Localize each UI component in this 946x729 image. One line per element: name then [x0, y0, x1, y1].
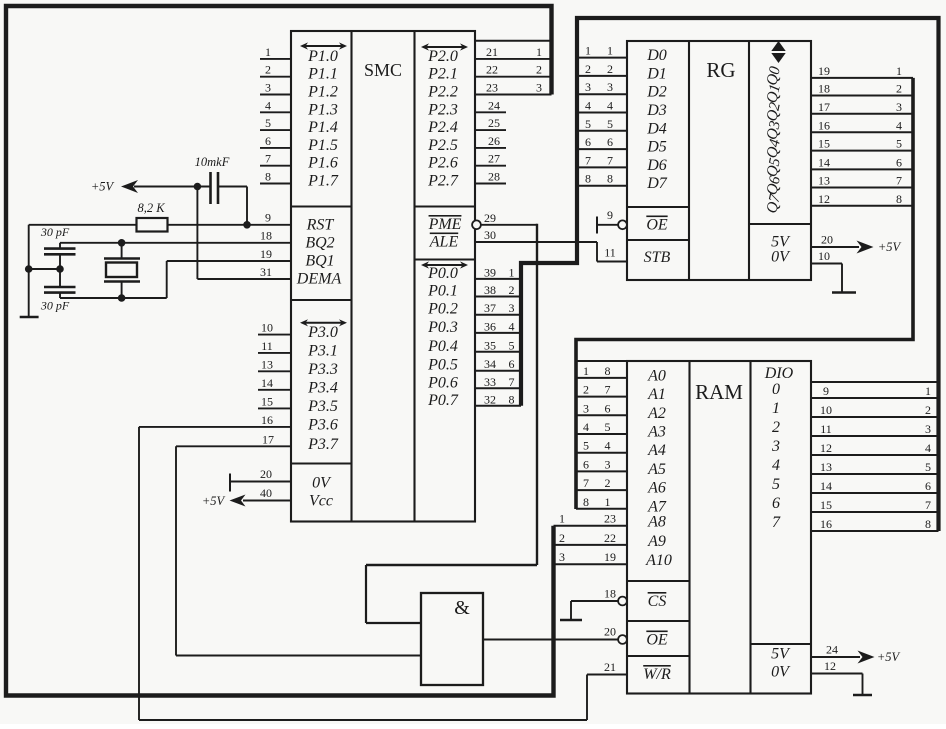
svg-text:D2: D2: [646, 84, 667, 101]
svg-text:23: 23: [604, 512, 616, 526]
RAM 0V label: [771, 664, 791, 681]
svg-text:A5: A5: [647, 461, 666, 478]
SMC ALE label (overline): [429, 234, 459, 251]
svg-text:7: 7: [605, 383, 611, 397]
svg-text:D4: D4: [646, 120, 667, 137]
svg-text:16: 16: [261, 413, 273, 427]
SMC pin 18 number: [260, 229, 272, 243]
svg-text:CS: CS: [648, 593, 667, 610]
svg-text:A2: A2: [647, 405, 666, 422]
svg-text:DIO: DIO: [764, 365, 794, 382]
SMC pin 20 wire with end bar: [230, 467, 291, 492]
svg-text:18: 18: [260, 229, 272, 243]
svg-text:6: 6: [605, 401, 611, 415]
ground bar RAM: [853, 694, 872, 696]
svg-text:16: 16: [818, 118, 830, 132]
svg-text:12: 12: [824, 659, 836, 673]
svg-text:D7: D7: [646, 175, 668, 192]
svg-text:32: 32: [484, 392, 496, 406]
svg-text:3: 3: [536, 81, 542, 95]
svg-text:35: 35: [484, 338, 496, 352]
svg-text:P1.7: P1.7: [307, 173, 339, 190]
svg-text:3: 3: [585, 80, 591, 94]
svg-text:15: 15: [261, 394, 273, 408]
SMC P1.0-P1.7 labels: [307, 48, 339, 190]
RG 5V label: [771, 234, 791, 251]
svg-text:10mkF: 10mkF: [195, 155, 230, 169]
svg-text:P1.4: P1.4: [307, 119, 338, 136]
svg-text:3: 3: [771, 438, 780, 455]
svg-text:5: 5: [265, 116, 271, 130]
svg-text:3: 3: [265, 81, 271, 95]
svg-text:P0.5: P0.5: [427, 357, 458, 374]
svg-text:4: 4: [607, 99, 613, 113]
RG pin 9 OE wire with end bar and bubble: [597, 208, 627, 234]
svg-text:4: 4: [585, 99, 591, 113]
svg-text:8: 8: [509, 392, 515, 406]
RAM 5V label: [771, 646, 791, 663]
RAM pin 24 wire to +5V arrow: [811, 643, 901, 665]
svg-text:P0.3: P0.3: [427, 319, 458, 336]
svg-text:8: 8: [896, 192, 902, 206]
svg-text:7: 7: [772, 514, 781, 531]
svg-text:17: 17: [818, 100, 830, 114]
svg-text:STB: STB: [644, 249, 671, 266]
svg-text:3: 3: [896, 100, 902, 114]
svg-text:RG: RG: [706, 58, 735, 82]
svg-text:P0.6: P0.6: [427, 374, 458, 391]
svg-text:7: 7: [265, 152, 271, 166]
SMC RST label: [306, 217, 335, 234]
svg-text:6: 6: [583, 457, 589, 471]
svg-text:A4: A4: [647, 442, 666, 459]
svg-text:P3.3: P3.3: [307, 361, 338, 378]
wire PME pin29 to AND gate input 1: [366, 224, 537, 623]
svg-text:D6: D6: [646, 157, 667, 174]
RG STB label: [644, 249, 671, 266]
svg-text:P1.0: P1.0: [307, 48, 338, 65]
svg-text:P3.6: P3.6: [307, 416, 338, 433]
RAM address wires A8-A10 from left frame: [554, 512, 628, 565]
svg-text:BQ2: BQ2: [305, 235, 334, 252]
RAM WR label (overline): [643, 666, 671, 683]
svg-text:7: 7: [583, 476, 589, 490]
svg-text:OE: OE: [646, 217, 668, 234]
svg-text:P3.4: P3.4: [307, 379, 338, 396]
SMC pin 31 number: [260, 265, 272, 279]
svg-text:19: 19: [260, 247, 272, 261]
RAM pin 20 OE bubble: [604, 625, 627, 644]
bus frame left (P2.0-P2.2 to A8-A10 loop): [6, 6, 554, 696]
svg-text:13: 13: [820, 460, 832, 474]
svg-text:18: 18: [604, 587, 616, 601]
SMC pin 19 number: [260, 247, 272, 261]
svg-text:34: 34: [484, 357, 496, 371]
svg-text:6: 6: [772, 495, 780, 512]
svg-text:12: 12: [820, 441, 832, 455]
svg-text:5: 5: [585, 117, 591, 131]
svg-text:1: 1: [772, 400, 780, 417]
RAM CS label (overline): [648, 593, 667, 610]
capacitor C3 10mkF: [195, 155, 230, 204]
svg-text:19: 19: [604, 550, 616, 564]
svg-text:1: 1: [583, 364, 589, 378]
wire P3.6 to RAM WR (bottom route): [139, 427, 587, 720]
svg-text:D3: D3: [646, 102, 667, 119]
SMC pin 9 number: [265, 211, 271, 225]
RG OE label (overline): [646, 217, 668, 234]
svg-text:1: 1: [536, 45, 542, 59]
svg-text:7: 7: [585, 153, 591, 167]
svg-text:20: 20: [604, 625, 616, 639]
svg-text:11: 11: [261, 339, 273, 353]
svg-text:30: 30: [484, 228, 496, 242]
RAM DIO 0-7 digit labels: [771, 381, 781, 531]
crystal Q1: [104, 243, 140, 302]
wire P3.7 to AND gate input 2: [176, 446, 421, 655]
SMC P3 labels: [307, 324, 339, 453]
svg-text:7: 7: [896, 174, 902, 188]
svg-text:1: 1: [559, 512, 565, 526]
SMC pin 29 PME bubble: [472, 211, 496, 229]
SMC port P0 bus arrow: [421, 261, 468, 268]
svg-text:7: 7: [607, 153, 613, 167]
svg-text:19: 19: [818, 64, 830, 78]
svg-text:P2.5: P2.5: [427, 137, 458, 154]
RG 0V label: [771, 249, 791, 266]
ground bar CS: [560, 619, 582, 621]
svg-text:4: 4: [583, 420, 589, 434]
RG input wires D0-D7 from bus: [579, 44, 627, 186]
RAM data wires DIO to bus: [811, 384, 939, 531]
svg-text:P1.6: P1.6: [307, 155, 338, 172]
RG pin 10 wire to ground: [811, 249, 842, 292]
svg-text:25: 25: [488, 116, 500, 130]
svg-text:10: 10: [261, 321, 273, 335]
svg-text:11: 11: [820, 422, 832, 436]
svg-text:4: 4: [509, 319, 515, 333]
svg-text:BQ1: BQ1: [305, 253, 334, 270]
svg-text:+5V: +5V: [202, 494, 226, 508]
svg-text:2: 2: [772, 419, 780, 436]
svg-text:5: 5: [605, 420, 611, 434]
svg-text:2: 2: [585, 62, 591, 76]
RAM pin 21 WR wire: [587, 660, 627, 675]
svg-text:3: 3: [607, 80, 613, 94]
svg-text:3: 3: [559, 550, 565, 564]
svg-text:9: 9: [823, 384, 829, 398]
svg-text:0V: 0V: [312, 475, 332, 492]
+5V label at pin 40: [202, 494, 226, 508]
svg-text:P0.4: P0.4: [427, 338, 458, 355]
svg-text:P2.1: P2.1: [427, 66, 458, 83]
RAM U3 body: [627, 361, 811, 694]
SMC pins 21-23 bused wires to left frame: [475, 45, 552, 95]
svg-text:22: 22: [486, 63, 498, 77]
svg-text:SMC: SMC: [364, 60, 402, 80]
svg-text:8: 8: [605, 364, 611, 378]
resistor R1 8,2K on RST wire: [29, 201, 291, 232]
svg-text:2: 2: [559, 531, 565, 545]
svg-text:5: 5: [607, 117, 613, 131]
SMC P0.0-P0.7 labels: [427, 265, 459, 409]
svg-text:A3: A3: [647, 424, 666, 441]
svg-text:16: 16: [820, 517, 832, 531]
RAM DIO label: [764, 365, 794, 382]
svg-text:A1: A1: [647, 386, 666, 403]
svg-text:36: 36: [484, 319, 496, 333]
svg-text:5: 5: [896, 137, 902, 151]
svg-text:ALE: ALE: [429, 234, 459, 251]
svg-text:7: 7: [509, 375, 515, 389]
svg-text:2: 2: [925, 403, 931, 417]
svg-text:1: 1: [925, 384, 931, 398]
svg-text:3: 3: [925, 422, 931, 436]
svg-text:6: 6: [265, 134, 271, 148]
svg-text:6: 6: [585, 135, 591, 149]
svg-text:10: 10: [820, 403, 832, 417]
svg-text:+5V: +5V: [878, 240, 902, 254]
svg-text:7: 7: [925, 498, 931, 512]
SMC pin 17 wire (P3.7): [176, 432, 291, 446]
SMC pins 1-8 wires (P1): [260, 45, 291, 184]
SMC BQ2 label: [305, 235, 334, 252]
microcontroller U1 SMC body: [291, 31, 475, 522]
SMC DEMA label: [296, 271, 342, 288]
svg-text:12: 12: [818, 192, 830, 206]
svg-text:33: 33: [484, 375, 496, 389]
svg-text:4: 4: [896, 118, 902, 132]
svg-text:9: 9: [265, 211, 271, 225]
svg-text:30 pF: 30 pF: [40, 299, 70, 313]
svg-text:31: 31: [260, 265, 272, 279]
SMC BQ1 label: [305, 253, 334, 270]
svg-text:P2.0: P2.0: [427, 48, 458, 65]
svg-text:P2.3: P2.3: [427, 101, 458, 118]
svg-text:&: &: [454, 597, 470, 619]
svg-text:24: 24: [826, 643, 838, 657]
ground bar under RST leg: [20, 316, 39, 318]
SMC P2.0-P2.7 labels: [427, 48, 459, 190]
svg-text:2: 2: [583, 383, 589, 397]
RG Q diamond arrow: [771, 41, 785, 63]
svg-text:4: 4: [925, 441, 931, 455]
svg-text:24: 24: [488, 98, 500, 112]
svg-text:2: 2: [536, 63, 542, 77]
wire AND gate output to RAM OE: [483, 639, 619, 641]
svg-text:P1.1: P1.1: [307, 66, 338, 83]
SMC pin 30 ALE wire to RG STB pin 11: [475, 228, 627, 262]
RAM section dividers: [627, 581, 811, 656]
svg-text:D1: D1: [646, 65, 667, 82]
RAM A0-A10 labels: [645, 367, 672, 569]
svg-text:0: 0: [772, 381, 780, 398]
RAM pin 18 CS wire with bubble to ground: [571, 587, 627, 620]
svg-text:+5V: +5V: [877, 650, 901, 664]
RG output wires Q0-Q7 to address bus: [811, 64, 913, 206]
wire cap junction to ground leg: [29, 268, 60, 270]
SMC pins 39-32 bused wires (P0 to bus): [475, 265, 521, 406]
svg-text:13: 13: [261, 357, 273, 371]
SMC 0V label: [312, 475, 332, 492]
svg-text:21: 21: [604, 660, 616, 674]
svg-text:2: 2: [265, 63, 271, 77]
svg-text:A9: A9: [647, 533, 666, 550]
svg-text:6: 6: [925, 479, 931, 493]
svg-text:15: 15: [818, 137, 830, 151]
svg-text:P0.2: P0.2: [427, 301, 458, 318]
svg-text:P3.1: P3.1: [307, 342, 338, 359]
svg-text:1: 1: [265, 45, 271, 59]
wire C3 to RST node: [218, 187, 251, 229]
wire RST left leg to ground: [25, 225, 33, 317]
svg-text:P3.0: P3.0: [307, 324, 338, 341]
svg-text:P2.4: P2.4: [427, 119, 458, 136]
svg-text:P1.3: P1.3: [307, 101, 338, 118]
svg-text:1: 1: [585, 44, 591, 58]
svg-text:10: 10: [818, 249, 830, 263]
svg-text:3: 3: [509, 301, 515, 315]
svg-text:17: 17: [262, 432, 274, 446]
svg-text:8: 8: [585, 172, 591, 186]
SMC pins 10-17 stub wires (P3.0-P3.5): [258, 321, 291, 409]
svg-text:RST: RST: [306, 217, 335, 234]
svg-text:A0: A0: [647, 367, 666, 384]
svg-text:3: 3: [583, 401, 589, 415]
wire BQ2 pin18: [60, 239, 291, 247]
svg-text:5: 5: [925, 460, 931, 474]
svg-text:RAM: RAM: [695, 380, 743, 404]
svg-text:Vcc: Vcc: [309, 493, 333, 510]
RAM A-box top line: [576, 360, 627, 362]
svg-text:1: 1: [509, 265, 515, 279]
RAM pin 12 wire to ground: [811, 659, 863, 695]
svg-text:OE: OE: [646, 632, 668, 649]
SMC PME label (overline): [428, 216, 462, 233]
svg-text:5V: 5V: [771, 646, 791, 663]
svg-text:14: 14: [820, 479, 832, 493]
svg-text:29: 29: [484, 211, 496, 225]
svg-text:8: 8: [607, 172, 613, 186]
svg-text:2: 2: [607, 62, 613, 76]
svg-text:20: 20: [260, 467, 272, 481]
svg-text:13: 13: [818, 174, 830, 188]
svg-text:27: 27: [488, 152, 500, 166]
svg-text:P2.2: P2.2: [427, 84, 458, 101]
svg-text:2: 2: [896, 82, 902, 96]
RG pin 20 wire to +5V arrow: [811, 233, 902, 255]
svg-text:4: 4: [605, 439, 611, 453]
svg-text:14: 14: [818, 155, 830, 169]
svg-text:40: 40: [260, 486, 272, 500]
bus frame right (P0 to RG D-inputs and RAM DIO): [521, 18, 939, 531]
svg-text:6: 6: [607, 135, 613, 149]
SMC section dividers: [291, 207, 475, 464]
AND gate U4: [421, 593, 483, 685]
svg-text:5: 5: [509, 338, 515, 352]
svg-text:A10: A10: [645, 552, 672, 569]
svg-text:9: 9: [607, 208, 613, 222]
svg-text:15: 15: [820, 498, 832, 512]
svg-text:4: 4: [265, 98, 271, 112]
svg-text:P3.7: P3.7: [307, 436, 339, 453]
SMC Vcc label: [309, 493, 333, 510]
svg-text:2: 2: [509, 283, 515, 297]
wire +5V node down to DEMA pin 31: [197, 187, 291, 280]
svg-text:23: 23: [486, 81, 498, 95]
RG pin 11 number: [604, 246, 616, 260]
SMC port P2 bus arrow: [421, 43, 468, 50]
svg-text:0V: 0V: [771, 664, 791, 681]
+5V arrow left of 10mkF cap: [91, 180, 211, 194]
svg-text:0V: 0V: [771, 249, 791, 266]
SMC port P1 bus arrow: [300, 42, 347, 49]
svg-text:18: 18: [818, 82, 830, 96]
svg-text:P2.7: P2.7: [427, 173, 459, 190]
ground bar RG: [832, 291, 856, 293]
svg-text:P0.0: P0.0: [427, 265, 458, 282]
SMC pin 40 wire to +5V arrow: [230, 486, 292, 507]
svg-text:D5: D5: [646, 139, 667, 156]
capacitor C2 30pF bottom: [40, 269, 76, 313]
svg-text:38: 38: [484, 283, 496, 297]
svg-text:28: 28: [488, 170, 500, 184]
svg-text:6: 6: [509, 357, 515, 371]
register U2 RG body: [627, 41, 811, 280]
RAM DIO box top line: [811, 381, 939, 383]
svg-text:DEMA: DEMA: [296, 271, 342, 288]
svg-text:4: 4: [772, 457, 780, 474]
svg-text:P0.1: P0.1: [427, 283, 458, 300]
svg-text:22: 22: [604, 531, 616, 545]
svg-text:PME: PME: [428, 216, 462, 233]
SMC pin 16 wire (P3.6): [139, 413, 291, 427]
svg-text:+5V: +5V: [91, 180, 115, 194]
svg-text:5: 5: [583, 439, 589, 453]
svg-text:1: 1: [607, 44, 613, 58]
svg-text:14: 14: [261, 376, 273, 390]
svg-text:8: 8: [265, 170, 271, 184]
RG section dividers: [627, 207, 811, 240]
svg-text:8: 8: [583, 495, 589, 509]
RG D0-D7 labels: [646, 47, 668, 192]
svg-text:5: 5: [772, 476, 780, 493]
RG Q0-Q7 labels (rotated): [763, 65, 784, 215]
svg-text:P1.5: P1.5: [307, 137, 338, 154]
svg-text:11: 11: [604, 246, 616, 260]
svg-text:W/R: W/R: [643, 666, 671, 683]
svg-text:39: 39: [484, 265, 496, 279]
svg-text:P0.7: P0.7: [427, 392, 459, 409]
svg-text:P1.2: P1.2: [307, 84, 338, 101]
svg-text:P2.6: P2.6: [427, 155, 458, 172]
svg-text:A8: A8: [647, 514, 666, 531]
RAM address wires A0-A7 from Q bus: [576, 364, 627, 509]
svg-text:2: 2: [605, 476, 611, 490]
svg-text:A6: A6: [647, 480, 666, 497]
svg-text:8,2 K: 8,2 K: [137, 201, 165, 215]
P2 bus box top line: [475, 40, 552, 42]
capacitor C1 30pF top: [40, 225, 76, 273]
SMC pins 24-28 stub wires: [475, 98, 506, 183]
svg-text:1: 1: [896, 64, 902, 78]
svg-text:1: 1: [605, 495, 611, 509]
bus RG Q-outputs to RAM A0-A7: [576, 78, 913, 509]
wire crystal bottom to BQ1 pin19: [60, 261, 291, 298]
svg-text:21: 21: [486, 45, 498, 59]
svg-text:8: 8: [925, 517, 931, 531]
svg-text:37: 37: [484, 301, 496, 315]
